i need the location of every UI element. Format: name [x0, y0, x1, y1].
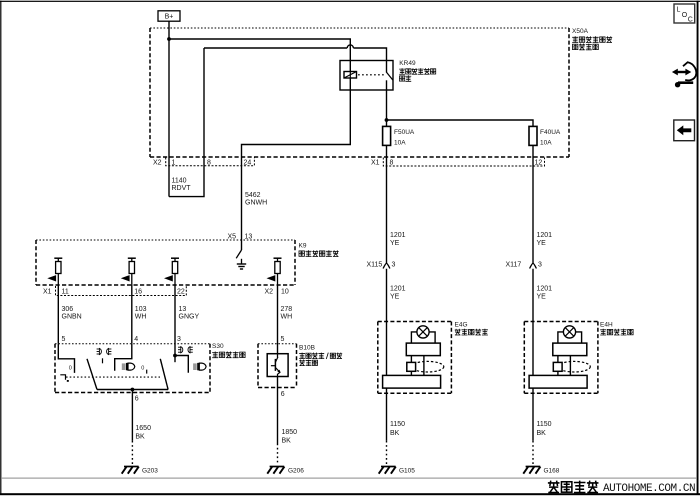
inline connector X115 pin 3	[367, 262, 396, 269]
label wire 1201 YE (upper right)	[537, 232, 553, 247]
K9 input cell pin X1-16	[121, 258, 136, 285]
svg-text:GNWH: GNWH	[245, 200, 267, 207]
label wire 1850 BK	[282, 429, 298, 445]
icon back-arrow button	[674, 120, 695, 141]
label wire 1201 YE (upper left)	[390, 232, 406, 247]
svg-text:E4H: E4H	[600, 322, 613, 329]
label X50A 发动机舱盖下 保险丝盒	[572, 28, 612, 50]
svg-text:BK: BK	[537, 430, 547, 437]
S30 pin4 contact	[115, 344, 132, 371]
svg-text:B10B: B10B	[299, 344, 315, 351]
svg-text:G206: G206	[288, 468, 304, 475]
svg-text:K9: K9	[299, 242, 307, 249]
label E4H 右侧近光灯	[600, 322, 633, 336]
svg-text:X5: X5	[228, 234, 237, 241]
svg-text:X2: X2	[265, 289, 274, 296]
svg-text:3: 3	[177, 336, 181, 343]
S30 parking lamp icon 2	[178, 347, 193, 353]
svg-text:1201: 1201	[537, 286, 553, 293]
connector X1 bracket on fuse box	[371, 158, 545, 167]
K9 input cell pin X1-22	[164, 258, 179, 285]
label wire 1140 RDVT	[172, 178, 192, 193]
icon LOC box (top right)	[674, 4, 695, 24]
svg-text:6: 6	[135, 396, 139, 403]
label KR49 前照灯近光继 电器	[399, 60, 436, 81]
svg-text:WH: WH	[135, 314, 147, 321]
svg-text:BK: BK	[390, 430, 400, 437]
wire relay coil to pin24 and down to K9 (5462)	[242, 78, 351, 240]
wire F40UA to E4H lamp	[532, 157, 534, 464]
pin label 5 (B10B)	[281, 336, 285, 343]
svg-text:1150: 1150	[390, 421, 405, 428]
svg-text:L: L	[677, 7, 681, 14]
label S30 前照灯开关	[212, 343, 245, 358]
wire U-loop pin1 to pin8	[169, 48, 204, 197]
svg-text:B+: B+	[165, 14, 174, 21]
label wire 278 WH	[281, 306, 293, 321]
lamp E4H assembly	[524, 322, 598, 394]
svg-text:5: 5	[62, 336, 66, 343]
battery feed B+ box	[158, 11, 180, 21]
svg-text:3: 3	[538, 262, 542, 269]
svg-text:1201: 1201	[537, 232, 553, 239]
svg-text:103: 103	[135, 306, 147, 313]
S30 low beam icon 2	[193, 363, 206, 370]
svg-text:YE: YE	[390, 240, 400, 247]
connector label X5 / 13	[228, 234, 253, 241]
S30 position label 0	[69, 366, 72, 372]
svg-text:X115: X115	[367, 262, 383, 269]
pin label 6 (S30)	[135, 396, 139, 403]
S30 switch blade 1	[87, 359, 97, 390]
svg-text:KR49: KR49	[399, 60, 416, 67]
svg-text:1650: 1650	[135, 425, 151, 432]
svg-text:22: 22	[177, 289, 185, 296]
S30 parking lamp icon 1	[97, 348, 112, 363]
label K9 车身控制模块	[299, 242, 339, 256]
label wire 13 GNGY	[179, 306, 200, 321]
svg-text:0: 0	[141, 366, 144, 372]
footer logo 汽车之家 (drawn glyphs)	[548, 481, 599, 493]
pin label 3 (S30)	[177, 336, 181, 343]
fuse F50UA	[383, 120, 415, 157]
page bottom border	[0, 493, 700, 495]
wire K9 pin10 to B10B pin5	[277, 285, 279, 354]
svg-text:278: 278	[281, 306, 293, 313]
svg-text:16: 16	[134, 289, 142, 296]
svg-text:X1: X1	[371, 160, 380, 167]
S30 pin3 contact	[173, 344, 188, 373]
K9 input cell pin X1-11	[47, 258, 62, 285]
svg-text:3: 3	[392, 262, 396, 269]
icon related-diagram arrows	[672, 62, 696, 87]
wire F50UA to E4G lamp	[386, 157, 388, 464]
svg-text:GNBN: GNBN	[62, 314, 82, 321]
svg-text:F40UA: F40UA	[540, 129, 561, 136]
connector X1 bracket under K9	[43, 286, 186, 296]
S30 switch blade 2	[160, 359, 168, 390]
wire K9 pin22 to S30 pin3	[174, 285, 176, 344]
footer separator line	[1, 478, 697, 479]
svg-text:GNGY: GNGY	[179, 314, 200, 321]
node junction relay output	[385, 118, 389, 122]
svg-text:G105: G105	[399, 468, 415, 475]
svg-text:BK: BK	[135, 434, 145, 441]
K9 internal ground symbol	[237, 259, 246, 269]
fuse box X50A dashed enclosure	[150, 28, 569, 157]
S30 pin5 contact	[58, 344, 74, 373]
svg-text:X1: X1	[43, 289, 52, 296]
svg-text:G203: G203	[142, 468, 158, 475]
wire K9 pin11 to S30 pin5	[57, 285, 59, 344]
label wire 5462 GNWH	[245, 192, 267, 207]
S30 off-detent mark	[60, 375, 69, 382]
wire K9 pin16 to S30 pin4	[131, 285, 133, 344]
wire B+ down to pin X2-1	[168, 21, 170, 196]
label wire 1150 BK (right)	[537, 421, 552, 437]
svg-text:YE: YE	[537, 240, 547, 247]
footer text AUTOHOME.COM.CN	[603, 483, 695, 495]
node junction on B+ wire	[167, 37, 171, 41]
K9 input cell pin X2-10	[267, 258, 282, 285]
wire pin8 to relay switch (hop over coil feed)	[204, 45, 387, 61]
relay coil	[344, 72, 357, 79]
label wire 103 WH	[135, 306, 147, 321]
svg-text:RDVT: RDVT	[172, 185, 192, 192]
svg-text:10: 10	[281, 289, 289, 296]
S30 position label 0 (second)	[141, 366, 146, 374]
fuse F40UA	[529, 126, 561, 157]
S30 mechanical linkage (dotted)	[66, 376, 160, 378]
svg-text:8: 8	[207, 159, 211, 166]
pin label 6 (B10B)	[281, 391, 285, 398]
svg-text:5: 5	[281, 336, 285, 343]
pin label 5 (S30)	[62, 336, 66, 343]
svg-text:24: 24	[244, 159, 252, 166]
label wire 1650 BK	[135, 425, 151, 441]
svg-text:306: 306	[62, 306, 74, 313]
wire junction to relay coil	[169, 39, 350, 72]
ground G206	[267, 467, 304, 475]
svg-text:5462: 5462	[245, 192, 261, 199]
K9 internal switch to ground on X5 input	[236, 240, 241, 258]
S30 common rail to pin 6	[97, 388, 168, 392]
svg-text:F50UA: F50UA	[394, 129, 415, 136]
svg-text:10A: 10A	[394, 139, 406, 146]
B10B phototransistor	[271, 354, 281, 377]
svg-text:S30: S30	[212, 343, 224, 350]
page top border	[0, 1, 700, 2]
svg-text:YE: YE	[537, 293, 547, 300]
relay linkage (dashed)	[358, 74, 384, 76]
svg-text:1850: 1850	[282, 429, 298, 436]
svg-text:11: 11	[62, 289, 69, 296]
svg-text:8: 8	[390, 160, 394, 167]
svg-text:X117: X117	[506, 262, 522, 269]
svg-text:0: 0	[69, 366, 72, 372]
svg-text:10A: 10A	[540, 139, 552, 146]
headlamp switch S30 dashed box	[55, 344, 210, 393]
svg-text:G168: G168	[544, 468, 560, 475]
svg-text:1140: 1140	[172, 178, 187, 185]
label wire 1150 BK (left)	[390, 421, 405, 437]
page right border	[697, 1, 699, 495]
svg-text:C: C	[688, 17, 693, 24]
svg-text:6: 6	[281, 391, 285, 398]
body control module K9 dashed box	[36, 240, 295, 285]
svg-text:WH: WH	[281, 314, 293, 321]
ambient light sensor B10B dashed box	[258, 344, 297, 388]
label wire 1201 YE (lower right)	[537, 286, 553, 301]
relay switch contact	[386, 61, 393, 121]
svg-text:1201: 1201	[390, 286, 406, 293]
svg-text:O: O	[682, 12, 688, 19]
svg-text:E4G: E4G	[455, 322, 468, 329]
svg-text:X50A: X50A	[572, 28, 589, 35]
page left border	[0, 1, 1, 494]
label B10B 环境光照/日照 传感器	[299, 344, 342, 365]
wire B10B pin6 to ground	[277, 377, 279, 465]
wire S30 pin6 to ground	[131, 390, 133, 465]
inline connector X117 pin 3	[506, 262, 543, 269]
pin label 4 (S30)	[134, 336, 138, 343]
svg-text:4: 4	[134, 336, 138, 343]
S30 low beam icon 1	[122, 363, 135, 370]
svg-text:1150: 1150	[537, 421, 552, 428]
svg-text:13: 13	[179, 306, 187, 313]
wire junction to fuse F40UA	[387, 120, 534, 126]
svg-text:AUTOHOME.COM.CN: AUTOHOME.COM.CN	[603, 483, 695, 495]
connector label X2 / 10 under K9	[265, 289, 289, 296]
label E4G 左侧近光灯	[455, 322, 488, 336]
svg-text:YE: YE	[390, 293, 400, 300]
ground G105	[379, 467, 416, 475]
label wire 306 GNBN	[62, 306, 82, 321]
svg-text:X2: X2	[153, 159, 162, 166]
relay KR49 box	[340, 61, 393, 91]
B10B sensor body square	[267, 354, 288, 377]
svg-text:1201: 1201	[390, 232, 406, 239]
svg-text:BK: BK	[282, 438, 292, 445]
ground G168	[523, 467, 559, 475]
connector X2 bracket on fuse box	[153, 158, 254, 167]
ground G203	[122, 467, 159, 475]
label wire 1201 YE (lower left)	[390, 286, 406, 301]
lamp E4G assembly	[378, 322, 452, 394]
svg-text:1: 1	[172, 159, 176, 166]
svg-text:12: 12	[535, 160, 543, 167]
